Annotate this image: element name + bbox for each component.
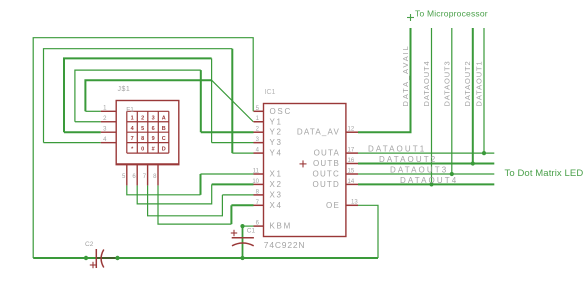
wire keypad pin6 to X2: [137, 184, 212, 204]
svg-text:OUTA: OUTA: [314, 149, 340, 158]
wire X4 row: [231, 204, 253, 206]
wire loop L2 (keypad pin4 to Y4): [44, 49, 233, 143]
wire keypad pin5 to X1: [127, 185, 201, 194]
wire DATAOUT2 row (OUTB): [358, 163, 494, 165]
svg-text:F1: F1: [126, 107, 134, 114]
svg-text:KBM: KBM: [270, 222, 292, 231]
pin 4 Y4 stub: [254, 152, 264, 154]
wire DATAOUT3 row (OUTC): [358, 173, 494, 175]
wire keypad pin3: [64, 131, 101, 133]
wire Y3 row: [212, 142, 254, 144]
keypad pin 8 stub: [157, 164, 159, 185]
node DATAOUT1 junction: [482, 151, 486, 155]
svg-text:DATAOUT2: DATAOUT2: [463, 60, 472, 106]
svg-text:X2: X2: [270, 180, 283, 189]
svg-text:X1: X1: [270, 170, 283, 179]
pin 11 X1 stub: [254, 173, 264, 175]
IC left pin stubs: [254, 111, 264, 226]
node C2 right junction: [115, 256, 119, 260]
svg-text:14: 14: [348, 179, 355, 185]
pin 3 Y3 stub: [254, 142, 264, 144]
pin 16 OUTB stub: [346, 163, 358, 165]
keypad pin numbers bottom: [122, 174, 157, 180]
wire DATAOUT1 vertical: [483, 28, 485, 153]
wire X3 row: [222, 194, 253, 196]
svg-text:A: A: [162, 115, 166, 121]
wire DATAOUT3 vertical: [451, 28, 453, 174]
wire DATAOUT1 row (OUTA): [358, 152, 494, 154]
wire loop L5 (keypad pin1 to Y1): [85, 80, 211, 111]
svg-text:1: 1: [131, 115, 134, 121]
pin 7 X4 stub: [254, 204, 264, 206]
wire DATA_AV to top: [358, 28, 411, 132]
keypad key glyphs: [131, 115, 166, 152]
svg-text:DATAOUT1: DATAOUT1: [368, 145, 426, 154]
pin 6 KBM stub: [254, 225, 264, 227]
IC right pin numbers: [348, 127, 359, 206]
svg-text:0: 0: [141, 147, 144, 153]
keypad pin 4 stub: [101, 142, 117, 144]
wire Y2 row: [201, 131, 254, 133]
pin 15 OUTC stub: [346, 173, 358, 175]
capacitor C2 (bottom left): [96, 249, 104, 268]
pin 1 Y1 stub: [254, 121, 264, 123]
svg-text:Y3: Y3: [270, 138, 283, 147]
wire KBM: [243, 225, 254, 227]
svg-text:3: 3: [152, 115, 155, 121]
svg-text:X3: X3: [270, 190, 283, 199]
op IC1 74C922N body: [264, 104, 346, 237]
svg-text:C1: C1: [247, 228, 256, 235]
node DATAOUT2 junction: [471, 161, 475, 165]
svg-text:To Microprocessor: To Microprocessor: [415, 9, 488, 19]
capacitor C1 (near KBM): [232, 238, 254, 246]
svg-text:DATA_AV: DATA_AV: [297, 128, 340, 137]
IC pin names right: [297, 128, 340, 210]
svg-text:DATAOUT4: DATAOUT4: [422, 60, 431, 106]
svg-text:12: 12: [348, 127, 355, 133]
wire keypad pin8 to X4: [158, 185, 231, 224]
svg-text:Y2: Y2: [270, 128, 283, 137]
svg-text:9: 9: [152, 136, 155, 142]
keypad pin 7 stub: [147, 164, 149, 185]
node C1/rail junction: [240, 256, 244, 260]
wire Y4 row: [232, 152, 253, 154]
svg-text:DATAOUT3: DATAOUT3: [443, 60, 452, 106]
svg-text:D: D: [162, 147, 166, 153]
node DATAOUT3 junction: [450, 172, 454, 176]
svg-text:2: 2: [141, 115, 144, 121]
svg-text:OUTC: OUTC: [313, 170, 340, 179]
pin 8 X3 stub: [254, 194, 264, 196]
pin 10 X2 stub: [254, 183, 264, 185]
keypad pin numbers left: [103, 106, 107, 144]
svg-text:Y1: Y1: [270, 117, 283, 126]
svg-text:DATAOUT4: DATAOUT4: [400, 176, 458, 185]
keypad pin 3 stub: [101, 131, 117, 133]
C1 polarity plus: [231, 230, 237, 236]
svg-text:15: 15: [348, 168, 355, 174]
wire loop L3 (keypad pin3 to Y3): [64, 58, 212, 132]
svg-text:DATAOUT2: DATAOUT2: [379, 155, 437, 164]
svg-text:OUTD: OUTD: [313, 180, 340, 189]
svg-text:8: 8: [141, 136, 144, 142]
To Microprocessor cross: [407, 14, 414, 21]
wire keypad pin2: [75, 121, 101, 123]
keypad bottom edge thick: [116, 163, 180, 165]
svg-text:X4: X4: [270, 201, 283, 210]
C2 polarity plus: [90, 262, 96, 268]
svg-text:OSC: OSC: [270, 107, 292, 116]
svg-text:Y4: Y4: [270, 149, 283, 158]
connector J$1 keypad outline: [116, 101, 179, 165]
wire DATAOUT4 row (OUTD): [358, 183, 494, 185]
svg-text:13: 13: [351, 200, 358, 206]
wire keypad pin4: [44, 142, 101, 144]
svg-text:J$1: J$1: [118, 86, 131, 93]
svg-text:17: 17: [348, 148, 355, 154]
svg-text:C2: C2: [85, 241, 94, 248]
pin 5 OSC stub: [254, 110, 264, 112]
IC left pin numbers: [252, 106, 259, 227]
keypad pin 5 stub: [126, 164, 128, 185]
pin 17 OUTA stub: [346, 152, 358, 154]
svg-text:16: 16: [348, 158, 355, 164]
wire bottom ground rail: [33, 257, 378, 259]
svg-text:OUTB: OUTB: [313, 159, 340, 168]
IC right pin stubs: [346, 132, 358, 205]
wire OE to rail: [358, 205, 378, 258]
IC origin cross: [300, 160, 307, 167]
svg-text:IC1: IC1: [265, 89, 276, 96]
svg-text:OE: OE: [326, 201, 340, 210]
svg-text:#: #: [152, 147, 155, 153]
svg-text:DATA_AVAIL: DATA_AVAIL: [401, 44, 410, 106]
keypad pin 6 stub: [136, 164, 138, 185]
svg-text:DATAOUT1: DATAOUT1: [475, 60, 484, 106]
keypad grid: [127, 111, 169, 153]
svg-text:7: 7: [131, 136, 134, 142]
svg-text:11: 11: [253, 169, 260, 175]
svg-text:5: 5: [141, 126, 144, 132]
wire X2 row: [212, 183, 254, 185]
wire X1 row: [201, 173, 254, 175]
wire diagonal to Y1: [212, 80, 254, 122]
node KBM/C1 junction: [240, 224, 244, 228]
svg-text:74C922N: 74C922N: [264, 240, 306, 250]
svg-text:C: C: [162, 136, 166, 142]
wire DATAOUT2 vertical: [472, 28, 474, 164]
wire keypad pin1: [85, 110, 100, 112]
wire keypad pin7 to X3: [148, 185, 223, 215]
wire C1 vertical: [242, 226, 244, 258]
pin 12 DATA_AV stub: [346, 131, 358, 133]
IC pin names left: [270, 107, 292, 231]
wire loop L4 (keypad pin2 to Y2): [75, 70, 201, 122]
svg-text:10: 10: [252, 179, 259, 185]
svg-text:B: B: [162, 126, 166, 132]
wire loop L1 left vertical (OSC/ground loop): [33, 38, 253, 258]
pin 2 Y2 stub: [254, 131, 264, 133]
pin 14 OUTD stub: [346, 183, 358, 185]
node DATAOUT4 junction: [429, 182, 433, 186]
pin 13 OE stub: [346, 204, 358, 206]
wire DATAOUT4 vertical: [431, 28, 433, 184]
svg-text:6: 6: [152, 126, 155, 132]
node C2 left junction: [84, 256, 88, 260]
keypad pin 2 stub: [101, 121, 117, 123]
keypad pin 1 stub: [101, 110, 117, 112]
wire rail segment under C2 (dark): [97, 257, 118, 259]
svg-text:To Dot Matrix LED: To Dot Matrix LED: [505, 168, 584, 179]
svg-text:DATAOUT3: DATAOUT3: [390, 166, 448, 175]
